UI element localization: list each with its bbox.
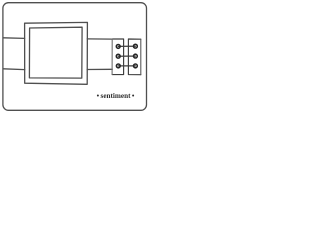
pin 1 right terminal (134, 44, 138, 48)
connector J1 left rail outer edge (111, 39, 113, 75)
connector J1 right rail outer edge (140, 39, 142, 74)
wire W1 left top (3, 37, 24, 40)
connector J1 left rail (112, 39, 123, 75)
pin 2 left terminal (116, 54, 120, 58)
pin 1 left terminal (116, 45, 120, 49)
connector J1 right rail (128, 39, 140, 75)
pin 3 right terminal (134, 64, 138, 68)
svg-text:• sentiment •: • sentiment • (97, 92, 135, 100)
pin 1 wire (118, 45, 135, 47)
pin 2 wire (118, 55, 135, 57)
pin 2 right terminal (134, 54, 138, 58)
wire W4 right bottom (87, 68, 112, 70)
border frame (3, 3, 147, 111)
pin 3 wire (118, 65, 135, 67)
wire W2 left bottom (3, 68, 24, 71)
component box U1 (25, 22, 88, 84)
wire W3 right top (87, 38, 112, 40)
pin 3 left terminal (116, 64, 120, 68)
inner box U1a (29, 27, 82, 78)
